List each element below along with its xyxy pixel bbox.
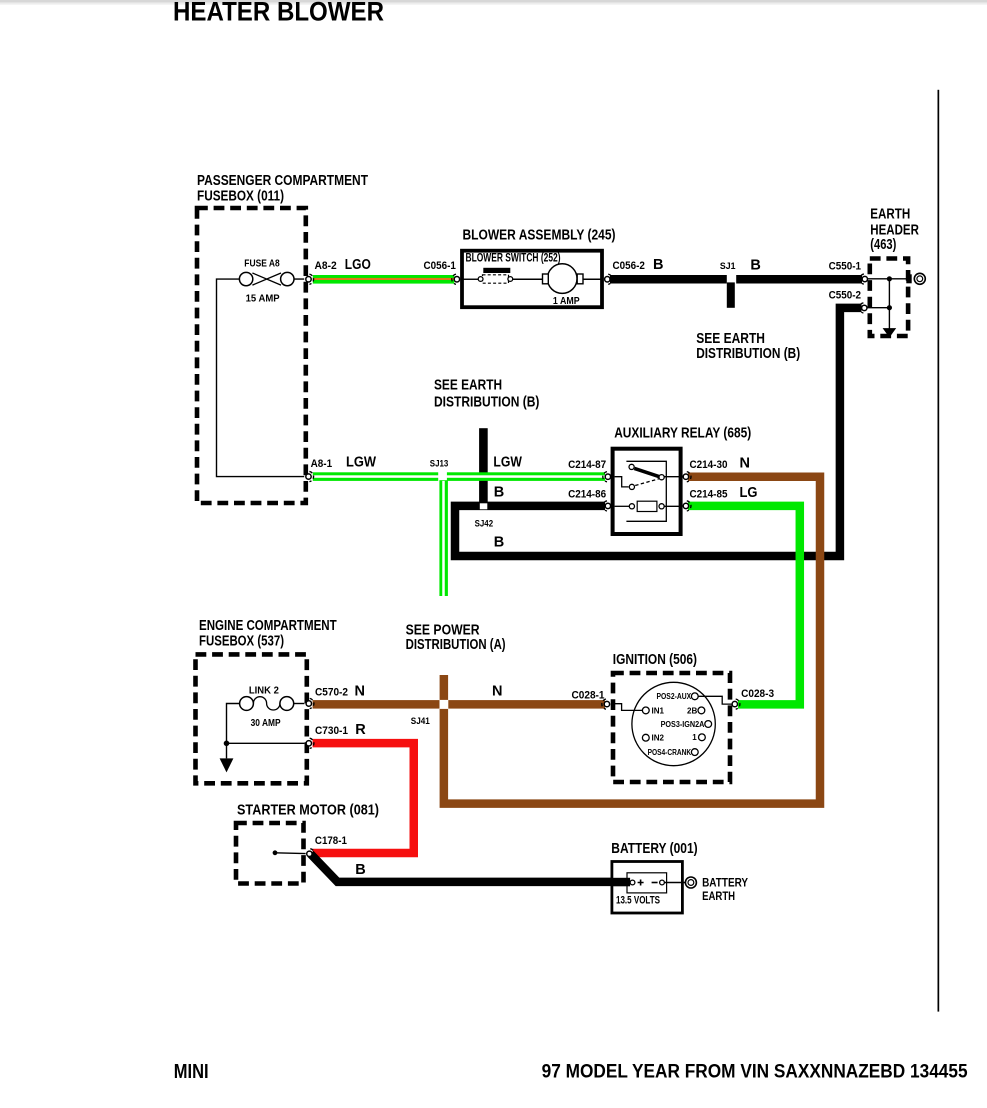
connector C214-86 [603,501,611,511]
svg-text:N: N [355,684,365,700]
relay coil wire [615,505,630,507]
svg-text:MINI: MINI [174,1061,209,1083]
connector C056-1 [452,274,460,284]
wire LGW vertical stub below SJ13 [439,480,448,596]
connector C028-1 [602,699,610,709]
wire LGW green/white: A8-1 to C214-87 [313,472,605,481]
connector C214-85 [683,501,691,511]
svg-text:HEADER: HEADER [870,222,919,238]
svg-text:IN2: IN2 [652,734,665,743]
ring terminal earth header [914,273,925,284]
wire LG green: relay C214-85 right, down, left to C028-3 [688,506,800,705]
svg-text:POS4-CRANK: POS4-CRANK [648,748,692,757]
ground arrow in earth header [883,328,897,337]
svg-text:FUSEBOX (537): FUSEBOX (537) [199,633,284,649]
svg-text:30 AMP: 30 AMP [251,717,281,729]
relay pin 87 internal wire [615,477,629,487]
svg-text:BATTERY (001): BATTERY (001) [611,841,697,857]
svg-text:C028-3: C028-3 [741,688,774,700]
svg-text:BATTERY: BATTERY [702,877,748,889]
svg-text:LG: LG [740,485,758,501]
connector C550-2 [859,303,867,313]
ignition (506) dashed box [613,673,730,782]
svg-text:DISTRIBUTION (A): DISTRIBUTION (A) [406,637,506,653]
svg-text:SJ1: SJ1 [720,261,736,272]
ignition wire C028-1 to IN1 [615,704,643,711]
node junction dot C550-2 [887,305,892,310]
terminal stud on earth header box edge [906,274,911,283]
connector C550-1 [860,274,868,284]
wire LGO green/orange: A8-2 to C056-1 [313,275,455,284]
svg-text:C550-1: C550-1 [829,260,861,272]
battery wire stub inside [612,878,630,887]
svg-text:LGO: LGO [345,257,371,273]
blower motor symbol [543,264,584,294]
svg-text:FUSE A8: FUSE A8 [244,257,280,269]
svg-text:R: R [355,722,366,738]
svg-text:AUXILIARY RELAY (685): AUXILIARY RELAY (685) [614,425,751,441]
svg-text:C178-1: C178-1 [315,835,347,847]
wire switch to motor [513,278,543,280]
svg-text:SEE EARTH: SEE EARTH [696,331,765,347]
wire SJ1 earth stub [727,282,735,307]
svg-text:SJ13: SJ13 [430,459,449,470]
earth header internal line C550-2 to junction [867,307,889,309]
svg-text:B: B [750,258,760,274]
svg-text:C214-86: C214-86 [568,489,606,501]
svg-text:C730-1: C730-1 [315,725,348,737]
wire R red: C730-1 right, down, left to C178-1 [313,743,414,853]
node SJ41 splice square [440,700,449,709]
relay contact circles [629,464,634,469]
svg-text:IN1: IN1 [652,706,665,715]
node junction dot C550-1 [887,276,892,281]
right border line [938,90,940,1012]
svg-text:B: B [653,257,663,273]
connector C056-2 [605,274,613,284]
svg-text:LGW: LGW [346,455,376,471]
earth header vertical line to arrow [888,279,890,329]
relay alternate contact dashed line [635,479,659,486]
svg-text:(463): (463) [870,237,896,253]
svg-text:C214-85: C214-85 [690,489,728,501]
svg-text:B: B [355,862,365,878]
fusible link 2 symbol [240,697,294,711]
blower switch lead from C056-1 [463,278,478,280]
svg-text:SJ42: SJ42 [475,518,494,529]
svg-text:A8-1: A8-1 [311,458,333,470]
svg-text:DISTRIBUTION (B): DISTRIBUTION (B) [434,395,540,411]
connector A8-2 [306,274,314,284]
ring terminal battery earth [685,877,696,888]
svg-text:EARTH: EARTH [870,207,910,223]
svg-text:HEATER BLOWER: HEATER BLOWER [173,0,384,27]
svg-text:97 MODEL YEAR FROM VIN SAXXNNA: 97 MODEL YEAR FROM VIN SAXXNNAZEBD 13445… [542,1062,968,1083]
battery earth line to ring [664,882,685,884]
ground arrow in engine fusebox [220,758,234,772]
svg-text:LGW: LGW [493,454,522,470]
svg-text:N: N [492,684,502,700]
wire B black: C214-86 to SJ42 corner, down, bottom run, up right side to C550-2 [455,308,862,556]
svg-text:BLOWER SWITCH (252): BLOWER SWITCH (252) [466,252,561,264]
connector A8-1 [306,471,314,481]
battery terminal circles [630,880,635,885]
wire motor to C056-2 [583,278,602,280]
svg-text:BLOWER ASSEMBLY (245): BLOWER ASSEMBLY (245) [463,228,616,244]
battery inner cell rect [627,873,667,893]
wire N brown: C570-2 to C028-1 [313,700,605,709]
connector C178-1 [307,849,315,859]
node junction dot engine fusebox [224,741,230,747]
wire B black: blower C056-2 to earth header C550-1 [610,275,862,284]
svg-text:B: B [494,535,504,551]
earth header (463) dashed box [870,259,908,337]
svg-text:1 AMP: 1 AMP [553,295,580,307]
connector C028-3 [732,699,740,709]
wire B black: C178-1 diagonal to battery + terminal [311,854,631,882]
svg-text:C214-30: C214-30 [690,459,728,471]
wire starter dot to C178-1 [275,852,306,855]
svg-text:C214-87: C214-87 [568,459,606,471]
svg-text:LINK 2: LINK 2 [249,685,279,697]
link 2 wire left + down to earth arrow [227,704,240,759]
svg-text:SJ41: SJ41 [411,716,431,727]
fuse A8 lead to A8-2 [294,278,304,280]
svg-text:DISTRIBUTION (B): DISTRIBUTION (B) [696,346,800,362]
connector C214-30 [683,472,691,482]
battery plus mark [638,880,644,886]
wire B black: earth distribution stub down to SJ42 [479,428,488,504]
wire N brown loop: relay C214-30 right, down, bottom run to SJ41 vertical [444,477,820,804]
svg-text:IGNITION (506): IGNITION (506) [613,652,697,668]
relay internal bracket [626,461,666,521]
passenger compartment fusebox (011) dashed box [197,208,306,503]
connector C730-1 [306,738,314,748]
svg-text:ENGINE COMPARTMENT: ENGINE COMPARTMENT [199,618,337,634]
svg-text:PASSENGER COMPARTMENT: PASSENGER COMPARTMENT [197,173,368,189]
relay coil circles [629,504,634,509]
ignition pin circles [691,693,698,700]
fuse A8 symbol [239,272,294,285]
battery minus mark [652,882,658,884]
node SJ1 splice gap [727,275,736,284]
engine compartment fusebox (537) dashed box [196,654,307,783]
svg-text:2B: 2B [687,706,698,715]
auxiliary relay (685) box [613,449,681,534]
relay common contact line to pin 30 [664,476,680,478]
battery (001) box [612,862,683,914]
svg-text:POS3-IGN2A: POS3-IGN2A [661,720,705,729]
svg-text:A8-2: A8-2 [315,260,337,272]
scan artifact grey band at top [0,0,987,3]
blower switch symbol (252) [478,268,513,283]
svg-text:SEE EARTH: SEE EARTH [434,378,502,394]
connector C570-2 [306,698,314,708]
fuse A8 wire loop inside fusebox [217,279,305,477]
ignition switch circle [632,682,715,765]
relay coil rectangle [637,501,657,511]
connector C214-87 [603,472,611,482]
relay contact thick bar [634,468,661,477]
svg-text:C570-2: C570-2 [315,687,348,699]
svg-text:POS2-AUX: POS2-AUX [657,692,692,701]
node SJ42 splice notch [480,503,488,509]
node SJ13 splice gap [438,472,447,482]
blower assembly (245) box [462,251,602,308]
svg-text:B: B [494,484,504,500]
node starter motor dot [273,850,278,855]
wire junction to C730-1 [227,742,305,744]
svg-text:FUSEBOX (011): FUSEBOX (011) [197,189,284,205]
svg-text:C056-2: C056-2 [613,260,645,272]
svg-text:13.5 VOLTS: 13.5 VOLTS [616,895,660,907]
ignition wire POS2-AUX to C028-3 [698,696,732,704]
svg-text:C028-1: C028-1 [572,689,605,701]
wire link 2 to C570-2 [294,703,305,705]
svg-text:15 AMP: 15 AMP [246,292,280,304]
svg-text:STARTER MOTOR (081): STARTER MOTOR (081) [237,802,379,818]
svg-text:N: N [740,455,750,471]
svg-text:EARTH: EARTH [702,891,735,903]
starter motor (081) dashed box [236,823,304,884]
earth header internal line C550-1 to ring [868,278,909,280]
svg-text:C056-1: C056-1 [424,260,456,272]
svg-text:C550-2: C550-2 [829,290,861,302]
svg-text:1: 1 [692,733,697,742]
